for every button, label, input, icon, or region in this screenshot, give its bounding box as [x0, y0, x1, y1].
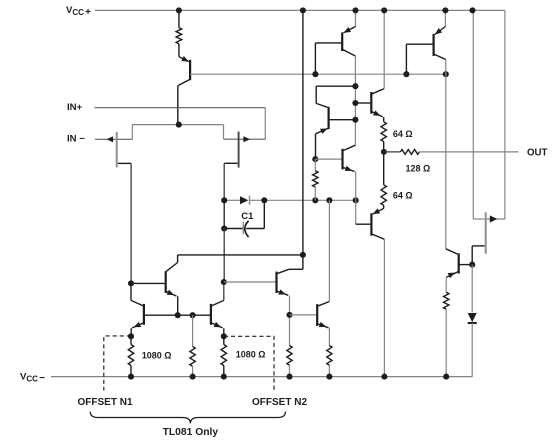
svg-text:1080 Ω: 1080 Ω	[236, 350, 266, 360]
svg-text:IN+: IN+	[67, 102, 83, 113]
svg-text:128 Ω: 128 Ω	[406, 163, 431, 173]
svg-text:OUT: OUT	[527, 147, 548, 158]
svg-text:TL081 Only: TL081 Only	[163, 427, 219, 438]
svg-text:VCC−: VCC−	[20, 372, 45, 384]
svg-text:64 Ω: 64 Ω	[393, 190, 413, 200]
svg-text:VCC+: VCC+	[66, 5, 91, 18]
svg-text:IN −: IN −	[67, 134, 85, 145]
svg-text:OFFSET N2: OFFSET N2	[252, 397, 307, 408]
svg-text:OFFSET N1: OFFSET N1	[78, 397, 133, 408]
svg-text:1080 Ω: 1080 Ω	[142, 351, 172, 361]
svg-text:C1: C1	[241, 211, 254, 222]
svg-text:64 Ω: 64 Ω	[393, 129, 413, 139]
